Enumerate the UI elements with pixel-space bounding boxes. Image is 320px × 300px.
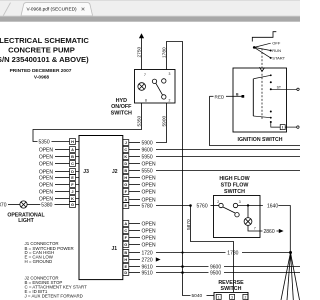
key pivot node — [253, 46, 256, 49]
svg-text:5350: 5350 — [136, 115, 142, 126]
svg-text:5900: 5900 — [161, 115, 167, 126]
reverse switch S4 box — [214, 292, 248, 300]
ignition top link dot — [270, 74, 272, 76]
wire pin3 to 1640 — [238, 205, 263, 207]
ignition switch U2 box — [233, 68, 287, 132]
svg-text:9510: 9510 — [142, 270, 153, 276]
net label 1720 — [142, 250, 153, 256]
svg-text:5380: 5380 — [41, 202, 52, 208]
svg-text:5760: 5760 — [197, 203, 208, 209]
label OPEN J2-G — [142, 182, 157, 188]
svg-text:OPEN: OPEN — [142, 182, 157, 188]
HF contact pin 2 circle — [219, 203, 223, 207]
net label 9510 — [142, 270, 153, 276]
switch blade S1 — [156, 83, 163, 95]
HF switch blade — [223, 207, 235, 213]
svg-text:OPEN: OPEN — [142, 242, 157, 248]
svg-text:J1: J1 — [111, 246, 117, 252]
wire RED (ignition B feed) — [210, 96, 301, 145]
svg-text:(S/N 235400101 & ABOVE): (S/N 235400101 & ABOVE) — [0, 55, 89, 64]
label RUN — [272, 48, 281, 53]
contact pin 3 circle — [162, 79, 166, 83]
lamp DS2 (HYD switch indicator) — [138, 83, 146, 91]
wire 1720/1780 row (J1-B to fan node) — [156, 252, 291, 254]
label OPEN J2-D — [142, 161, 157, 167]
svg-text:H: H — [124, 175, 127, 180]
wire 5380 (lamp to J3-G) — [27, 204, 69, 206]
label J1 — [111, 246, 117, 252]
node 9610 junction — [181, 265, 184, 268]
label J3 — [83, 169, 89, 175]
net label 2720 — [142, 257, 153, 263]
svg-text:1720: 1720 — [142, 250, 153, 256]
svg-text:J2: J2 — [112, 169, 118, 175]
wire 9610/9600 row (J1-E to right edge) — [156, 266, 300, 268]
svg-text:START: START — [272, 56, 285, 61]
svg-text:D: D — [124, 161, 127, 166]
contact pin 2 circle — [162, 95, 166, 99]
wire 9510/9500 row (J1-D to right edge) — [156, 272, 300, 274]
svg-text:ON/OFF: ON/OFF — [111, 104, 132, 110]
wire I terminal — [271, 122, 297, 127]
svg-text:7: 7 — [144, 73, 146, 77]
node junction 5780/5760/5870 — [189, 204, 192, 207]
svg-text:E: E — [124, 203, 127, 208]
svg-text:OPEN: OPEN — [142, 221, 157, 227]
label OPEN J1-A — [142, 221, 157, 227]
node fan junction 1780/1640 — [289, 251, 292, 254]
ring terminal ST — [297, 88, 299, 90]
svg-text:E: E — [71, 175, 74, 180]
svg-text:HYD: HYD — [116, 98, 127, 104]
wire 2860 (lamp to arrow) — [248, 225, 279, 231]
wire 1780 (HYD pin3 down to fan node and reverse switch) — [167, 42, 215, 296]
wire 5870 (node down to reverse switch) — [191, 206, 234, 293]
net label 9600 right — [210, 264, 221, 270]
svg-text:OPEN: OPEN — [142, 189, 157, 195]
net label 5900 at J2-J — [142, 140, 153, 146]
svg-text:OPEN: OPEN — [39, 189, 54, 195]
svg-text:STD FLOW: STD FLOW — [221, 183, 249, 189]
svg-text:SWITCH: SWITCH — [221, 286, 242, 292]
node lamp tap — [247, 204, 249, 206]
label OPEN J2-A — [142, 197, 157, 203]
label OPEN J1-C — [142, 228, 157, 234]
net label 5550 — [142, 168, 153, 174]
net label 5760 — [197, 203, 208, 209]
svg-text:OPEN: OPEN — [39, 147, 54, 153]
svg-text:I: I — [282, 126, 283, 130]
net label 5380 — [41, 202, 52, 208]
svg-text:1780: 1780 — [227, 250, 238, 256]
J2 pin boxes — [123, 140, 129, 209]
net label RED — [215, 94, 225, 99]
wire fan 1 — [281, 253, 291, 300]
svg-text:H: H — [124, 257, 127, 262]
ignition contact dot row2 — [270, 81, 272, 83]
net label 1780 vertical — [161, 47, 167, 58]
reverse switch pin box 2 — [243, 294, 248, 299]
wire 5780 (J2-E to node) — [156, 205, 190, 207]
svg-text:LIGHT: LIGHT — [18, 218, 34, 224]
svg-text:B: B — [124, 250, 127, 255]
svg-text:8: 8 — [145, 99, 147, 103]
reverse pin number 3 — [231, 296, 233, 300]
wire 5370 stub at left edge — [8, 204, 20, 206]
HF pin number 7 — [254, 227, 256, 231]
J2 pin letters — [124, 140, 127, 208]
svg-text:2: 2 — [244, 296, 246, 300]
pin number 7 — [144, 73, 146, 77]
wire fan 2 — [287, 253, 291, 300]
net label 5870 — [186, 219, 192, 230]
svg-text:H: H — [71, 139, 74, 144]
previous tab edge — [3, 3, 10, 16]
svg-text:H = GROUND: H = GROUND — [25, 259, 53, 264]
svg-text:SWITCH: SWITCH — [224, 189, 245, 195]
wire fan 4 — [291, 253, 300, 300]
net label 5350 at pin H — [39, 139, 50, 145]
label OPEN J1-G — [142, 242, 157, 248]
svg-text:OFF: OFF — [272, 41, 281, 46]
key contact START dot — [270, 57, 272, 59]
svg-text:5780: 5780 — [142, 203, 153, 209]
svg-text:OPEN: OPEN — [142, 228, 157, 234]
svg-text:2: 2 — [217, 200, 219, 204]
svg-text:1780: 1780 — [161, 47, 167, 58]
key position lines — [254, 43, 271, 58]
net label 5040 — [192, 293, 203, 299]
J1 pin letters — [124, 221, 127, 275]
high flow / std flow switch S3 labels — [219, 176, 249, 195]
net label 5370 (cut at page edge) — [0, 202, 7, 208]
node 1780 tee — [181, 251, 183, 253]
svg-text:REVERSE: REVERSE — [218, 280, 244, 286]
net label 5350 vertical — [136, 115, 142, 126]
svg-text:5550: 5550 — [142, 168, 153, 174]
svg-text:G: G — [71, 202, 74, 207]
label REVERSE SWITCH — [218, 280, 244, 292]
svg-text:3: 3 — [231, 296, 233, 300]
pin number 2 — [169, 99, 171, 103]
wire 5900 (HYD pin2 to J2-J) — [156, 103, 167, 143]
arrow head wire 2720 — [156, 257, 161, 261]
lamp DS1 operational light — [20, 201, 27, 208]
net label 5900 vertical — [161, 115, 167, 126]
svg-text:OPEN: OPEN — [39, 175, 54, 181]
browser tab bar — [0, 0, 300, 16]
label IGNITION SWITCH — [238, 137, 283, 143]
net label 9500 right — [210, 270, 221, 276]
svg-text:5040: 5040 — [192, 293, 203, 299]
wire 9600 row (J2-C to right edge) — [156, 149, 300, 151]
svg-text:G: G — [124, 242, 127, 247]
active tab — [21, 3, 93, 16]
svg-text:2860: 2860 — [264, 229, 275, 235]
svg-text:9500: 9500 — [210, 270, 221, 276]
svg-text:OPEN: OPEN — [142, 161, 157, 167]
svg-text:ELECTRICAL SCHEMATIC: ELECTRICAL SCHEMATIC — [0, 36, 89, 45]
reverse switch pin box 3 — [230, 294, 235, 299]
label HYD ON/OFF SWITCH — [111, 98, 133, 117]
ignition contact dot row4 — [270, 111, 272, 113]
key switch symbol (OFF/RUN/START) — [252, 32, 276, 42]
svg-text:5950: 5950 — [142, 154, 153, 160]
svg-text:V-0968.pdf (SECURED): V-0968.pdf (SECURED) — [27, 7, 77, 12]
ignition bottom link dot — [270, 117, 272, 119]
svg-text:D: D — [71, 169, 74, 174]
svg-text:5870: 5870 — [186, 219, 192, 230]
wire 1640 (to fan node) — [278, 206, 290, 252]
wire ST to ring terminal — [271, 88, 297, 90]
net label 2750 — [136, 46, 142, 57]
svg-text:IGNITION SWITCH: IGNITION SWITCH — [238, 137, 283, 143]
svg-text:OPEN: OPEN — [39, 161, 54, 167]
svg-text:G: G — [124, 182, 127, 187]
net label 1780 — [227, 250, 238, 256]
wire 2750 (battery feed, up arrow) — [141, 38, 143, 70]
wire fan 3 — [291, 253, 294, 300]
lamp DS3 (high flow indicator) — [244, 207, 252, 226]
label ST — [277, 86, 282, 90]
svg-text:J: J — [71, 189, 73, 194]
legend J2 connector — [25, 275, 88, 298]
label OPEN J2-H — [142, 175, 157, 181]
svg-text:E: E — [124, 264, 127, 269]
dashed actuator line — [261, 49, 263, 121]
svg-text:5350: 5350 — [39, 139, 50, 145]
svg-text:5370: 5370 — [0, 202, 7, 208]
label OPEN J2-F — [142, 189, 157, 195]
svg-text:3: 3 — [239, 200, 241, 204]
arrow head wire 2750 — [139, 33, 144, 38]
contact pin 7 circle — [152, 79, 156, 83]
arrow head wire 2860 — [279, 229, 284, 233]
key contact RUN dot — [270, 50, 272, 52]
svg-text:2720: 2720 — [142, 257, 153, 263]
svg-text:OPEN: OPEN — [142, 235, 157, 241]
ignition movable bar — [252, 79, 254, 116]
svg-text:CONCRETE PUMP: CONCRETE PUMP — [8, 46, 75, 55]
svg-text:C: C — [71, 161, 74, 166]
svg-text:PRINTED DECEMBER 2007: PRINTED DECEMBER 2007 — [10, 68, 72, 74]
switch S1 HYD ON/OFF box — [135, 70, 176, 104]
reverse pin number 1 — [218, 296, 220, 300]
pin box I — [280, 125, 285, 130]
label START — [272, 56, 285, 61]
svg-text:2: 2 — [169, 99, 171, 103]
J2 stub wires — [129, 143, 140, 206]
J3 OPEN wires — [55, 150, 70, 199]
wire 5550 row (J2-B to right edge) — [156, 170, 300, 172]
pin letter B — [236, 92, 239, 96]
ignition contact dot ST — [270, 88, 272, 90]
title block — [0, 36, 89, 80]
svg-text:A: A — [71, 147, 74, 152]
high flow switch box — [214, 196, 261, 238]
net label 5950 — [142, 154, 153, 160]
reverse pin number 2 — [244, 296, 246, 300]
svg-text:9600: 9600 — [142, 147, 153, 153]
J1 pin boxes — [123, 221, 129, 276]
wire 5350 (HYD pin8 to J3-H) — [33, 103, 142, 142]
wire 5950 row (J2-K to right edge) — [156, 156, 300, 158]
svg-text:HIGH FLOW: HIGH FLOW — [219, 176, 249, 182]
net label 5780 — [142, 203, 153, 209]
svg-text:2750: 2750 — [136, 46, 142, 57]
svg-text:J3: J3 — [83, 169, 89, 175]
svg-text:OPEN: OPEN — [39, 182, 54, 188]
HF pin number 3 — [239, 200, 241, 204]
label OPEN J1-F — [142, 235, 157, 241]
svg-text:OPEN: OPEN — [142, 175, 157, 181]
svg-text:A: A — [124, 197, 127, 202]
reverse switch pin box 1 — [216, 294, 221, 299]
svg-text:5900: 5900 — [142, 140, 153, 146]
net label 9600 — [142, 147, 153, 153]
ring terminal I — [297, 126, 299, 128]
svg-text:A: A — [124, 221, 127, 226]
svg-text:7: 7 — [254, 227, 256, 231]
svg-text:D: D — [124, 270, 127, 275]
svg-text:C: C — [124, 228, 127, 233]
net label 9610 — [142, 264, 153, 270]
label J2 — [112, 169, 118, 175]
svg-text:RUN: RUN — [272, 48, 281, 53]
svg-text:OPEN: OPEN — [39, 154, 54, 160]
J3 OPEN labels — [39, 147, 54, 202]
svg-text:B: B — [124, 168, 127, 173]
svg-text:SWITCH: SWITCH — [111, 110, 132, 116]
svg-text:K: K — [124, 154, 127, 159]
svg-text:B: B — [71, 154, 74, 159]
label OFF — [272, 41, 281, 46]
HF pin number 2 — [217, 200, 219, 204]
terminal B square — [242, 95, 245, 98]
svg-text:V-0968: V-0968 — [34, 74, 50, 80]
ignition top link — [253, 75, 270, 79]
pin letter I — [282, 126, 283, 130]
wire 5760 (node to high flow switch pin2) — [211, 205, 219, 207]
legend J1 connector — [25, 241, 74, 264]
node 9510 junction — [181, 271, 184, 274]
pin number 8 — [145, 99, 147, 103]
HF lower contact circle — [235, 213, 239, 217]
ignition contact dot bottom — [270, 121, 272, 123]
connector block J1/J2/J3 body — [79, 136, 123, 280]
HF contact pin 3 circle — [233, 203, 237, 207]
J3 pin boxes and stubs — [70, 139, 80, 208]
svg-text:1: 1 — [218, 296, 220, 300]
net label 1640 — [267, 203, 278, 209]
svg-text:C: C — [124, 147, 127, 152]
svg-text:3: 3 — [169, 72, 171, 76]
label OPERATIONAL LIGHT — [7, 212, 45, 224]
J3 pin letters — [71, 139, 74, 207]
J1 stub wires — [129, 224, 140, 273]
svg-text:J: J — [125, 140, 127, 145]
svg-text:K: K — [71, 196, 74, 201]
toolbar band — [0, 16, 300, 22]
svg-text:J = AUX DETENT FORWARD: J = AUX DETENT FORWARD — [25, 294, 83, 299]
key turn arrow — [260, 67, 265, 71]
ignition bottom link — [253, 116, 270, 118]
svg-text:RED: RED — [215, 94, 225, 99]
net label 2860 — [264, 229, 275, 235]
svg-text:1640: 1640 — [267, 203, 278, 209]
pin number 3 — [169, 72, 171, 76]
